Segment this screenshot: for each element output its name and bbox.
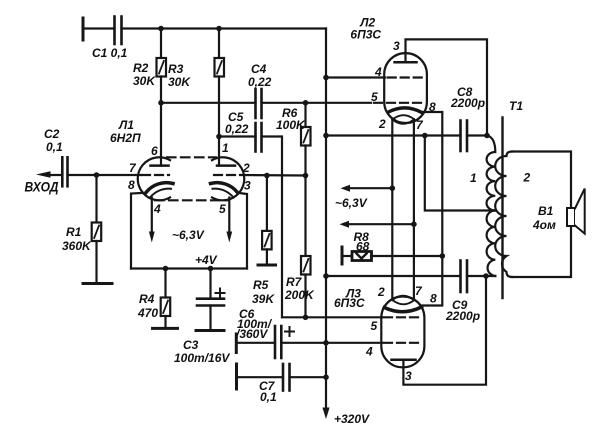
L3 heater lens: [393, 296, 415, 305]
wire center tap feed: [425, 136, 496, 211]
heater supply arrow 1: [347, 187, 392, 189]
L1 cathode right (pin 3): [211, 183, 238, 193]
L1 heater left (pin 4): [150, 189, 171, 198]
tube L3 envelope: [381, 297, 424, 368]
tube L1 envelope right arc: [212, 157, 244, 200]
svg-text:R2: R2: [133, 61, 149, 75]
svg-text:R5: R5: [253, 278, 269, 292]
wire B+ row to C9: [326, 275, 461, 277]
tube L1 envelope left arc: [138, 157, 170, 200]
junction rail to B+ feed row: [323, 133, 329, 139]
resistor R3: [218, 29, 220, 59]
svg-text:7: 7: [416, 118, 424, 132]
L1 heater right (pin 5): [213, 189, 234, 198]
junction B+ feed to center tap: [422, 133, 428, 139]
svg-text:0,1: 0,1: [260, 390, 277, 404]
svg-text:R3: R3: [168, 62, 184, 76]
capacitor C8: [459, 121, 462, 152]
junction R8 to cathode line: [440, 253, 446, 259]
svg-text:2200p: 2200p: [450, 96, 485, 110]
wire C2 to tube pin7: [68, 174, 142, 176]
svg-text:~6,3V: ~6,3V: [172, 228, 205, 242]
junction rail to L2 screen: [323, 75, 329, 81]
speaker B1: [567, 208, 575, 226]
+320V rail (vertical): [325, 29, 327, 411]
svg-text:5: 5: [219, 202, 226, 216]
svg-text:7: 7: [129, 161, 137, 175]
svg-text:~6,3V: ~6,3V: [335, 196, 368, 210]
C6 plus sign: [285, 331, 294, 333]
capacitor C3 (electrolytic): [209, 269, 211, 299]
svg-text:4: 4: [374, 65, 382, 79]
transformer T1 core: [501, 118, 503, 299]
T1 primary winding bottom half: [487, 211, 496, 277]
svg-text:R1: R1: [66, 225, 82, 239]
svg-text:R7: R7: [286, 275, 303, 289]
L3 grid1 dashes: [384, 316, 420, 318]
junction R2 top on +320V bus: [158, 26, 164, 32]
resistor R7: [304, 176, 306, 257]
L1 heater lead pin4 with arrow: [151, 198, 153, 234]
junction heater line pin7 arrow: [411, 221, 417, 227]
wire C5 output down to L3 grid row: [262, 137, 283, 318]
svg-text:68: 68: [356, 240, 370, 254]
L1 anode bar left (pin 6): [151, 164, 169, 167]
svg-text:2: 2: [523, 171, 531, 185]
svg-text:0,22: 0,22: [225, 122, 249, 136]
L1 grid dashes left (pin 7): [142, 174, 169, 176]
capacitor C2: [61, 157, 64, 186]
svg-text:2: 2: [377, 285, 385, 299]
ground bar under R4: [153, 327, 178, 330]
svg-text:470: 470: [137, 306, 158, 320]
capacitor C1: [113, 17, 116, 45]
L3 cathode arc: [384, 307, 421, 312]
capacitor C9: [459, 261, 462, 293]
ground bar under R1: [83, 282, 112, 285]
tube L1 envelope dashed top: [167, 156, 216, 158]
L2 anode bar pin3: [395, 61, 417, 64]
svg-text:0,22: 0,22: [248, 75, 272, 89]
resistor R2: [160, 29, 162, 59]
junction R6/R7 divider tap: [303, 173, 309, 179]
svg-text:2200p: 2200p: [445, 309, 480, 323]
wire R3 node to C5: [219, 135, 256, 137]
tube L1 envelope dashed bottom: [155, 199, 229, 201]
svg-text:6П3С: 6П3С: [350, 28, 381, 42]
svg-text:4: 4: [365, 345, 373, 359]
svg-text:200K: 200K: [284, 288, 315, 302]
L3 grid2 dashes: [384, 342, 420, 344]
svg-text:0,1: 0,1: [46, 140, 63, 154]
junction R3 top on +320V bus: [216, 26, 222, 32]
svg-text:30K: 30K: [133, 74, 156, 88]
T1 primary winding top half: [487, 136, 496, 211]
wire anode1 row to C4: [161, 102, 256, 104]
junction rail to L3 screen row: [323, 340, 329, 346]
svg-text:C2: C2: [44, 127, 60, 141]
junction rail to C7: [323, 374, 329, 380]
svg-text:R4: R4: [139, 292, 155, 306]
L2 heater lens: [393, 115, 415, 124]
L1 heater lead pin5 with arrow: [228, 198, 230, 234]
svg-text:8: 8: [429, 100, 436, 114]
svg-text:1: 1: [470, 171, 477, 185]
svg-text:6: 6: [151, 144, 158, 158]
svg-text:3: 3: [244, 179, 251, 193]
junction R7 bottom / L3 grid node: [303, 315, 309, 321]
T1 secondary winding: [495, 152, 512, 278]
svg-text:B1: B1: [538, 204, 554, 218]
svg-text:3: 3: [405, 369, 412, 383]
svg-text:/360V: /360V: [235, 327, 268, 341]
capacitor C5: [254, 123, 257, 152]
resistor R5: [266, 176, 268, 231]
ground terminal C7: [235, 364, 238, 389]
wire L2 cathode to common cathode line: [422, 112, 443, 256]
svg-text:C1 0,1: C1 0,1: [92, 46, 128, 60]
resistor R8: [352, 252, 372, 261]
wire secondary to speaker: [512, 152, 571, 209]
ground terminal bar at C1 left: [82, 18, 85, 40]
svg-text:100K: 100K: [276, 118, 306, 132]
junction heater line pin2 arrow: [390, 185, 396, 191]
svg-text:360K: 360K: [62, 239, 92, 253]
svg-text:8: 8: [128, 178, 135, 192]
wire B+ row to C8: [326, 134, 461, 136]
L2 grid2 dashes pin4: [388, 76, 424, 78]
ground bar under C3: [196, 329, 224, 332]
junction C9 / L3 anode / primary bottom: [483, 273, 489, 279]
svg-text:+320V: +320V: [334, 412, 370, 426]
L1 cathode left (pin 8): [146, 183, 173, 193]
svg-text:Л1: Л1: [118, 118, 134, 132]
junction C3 on cathode bus: [208, 266, 214, 272]
svg-text:30K: 30K: [168, 75, 191, 89]
svg-text:6П3С: 6П3С: [334, 296, 365, 310]
junction input node C2/R1: [94, 172, 100, 178]
resistor R6: [304, 103, 306, 127]
L1 grid dashes right (pin 2): [214, 174, 241, 176]
junction node anode1 / C4 wire: [158, 100, 164, 106]
svg-text:1: 1: [222, 141, 229, 155]
wire pin8 to cathode box: [131, 193, 146, 269]
svg-text:+4V: +4V: [195, 253, 218, 267]
junction R4 on cathode bus: [163, 266, 169, 272]
L1 anode bar right (pin 1): [217, 164, 235, 167]
svg-text:4: 4: [153, 202, 161, 216]
heater supply arrow 2: [346, 223, 414, 225]
capacitor C7: [282, 364, 285, 391]
svg-text:5: 5: [371, 90, 378, 104]
ground bar under R5: [258, 264, 276, 267]
wire pin3 to cathode box: [238, 193, 247, 269]
input arrow VHOD: [36, 171, 51, 177]
junction rail to C9 row: [323, 273, 329, 279]
resistor R1: [95, 175, 97, 223]
wire L3 anode to transformer bottom: [403, 276, 486, 385]
L2 grid1 dashes pin5: [374, 102, 422, 104]
resistor R4: [164, 269, 166, 298]
svg-text:2: 2: [378, 117, 386, 131]
junction C8 / L2 anode / primary top: [484, 133, 490, 139]
svg-text:4ом: 4ом: [532, 218, 556, 232]
svg-text:T1: T1: [509, 99, 523, 113]
wire cathode box bottom: [131, 267, 247, 269]
junction R5 top on grid2 wire: [264, 173, 270, 179]
svg-text:100m/16V: 100m/16V: [174, 351, 230, 365]
svg-text:2: 2: [242, 161, 250, 175]
wire rail to L2 pin4: [326, 76, 385, 78]
+320V arrow: [322, 408, 329, 420]
C3 plus sign: [216, 292, 225, 294]
ground terminal C6: [235, 334, 238, 353]
wire heater pin7 L2 down to L3: [413, 119, 415, 300]
wire L3 grid1 row: [282, 316, 382, 318]
L2 cathode arc: [389, 108, 422, 113]
svg-text:5: 5: [371, 319, 378, 333]
wire L1 pin2 to divider: [243, 174, 306, 177]
wire C6 to rail and L3 screen: [281, 342, 382, 344]
wire top bus from C1 to rail corner: [83, 27, 115, 29]
wire L2 anode to transformer top: [406, 39, 488, 135]
wire L3 cathode to common line: [422, 256, 443, 306]
junction C4-R6 / L2 grid node: [303, 100, 309, 106]
ground terminal R8: [341, 247, 344, 264]
svg-text:3: 3: [393, 39, 400, 53]
tube L2 envelope: [384, 53, 427, 123]
capacitor C4: [254, 89, 257, 118]
capacitor C6 (electrolytic): [274, 326, 277, 358]
wire C4 to L2 grid: [262, 102, 372, 104]
svg-text:7: 7: [415, 284, 423, 298]
svg-text:6Н2П: 6Н2П: [110, 131, 141, 145]
L3 anode bar pin3: [392, 358, 416, 361]
svg-text:C3: C3: [183, 338, 199, 352]
svg-text:ВХОД: ВХОД: [25, 179, 59, 195]
svg-text:39K: 39K: [252, 292, 275, 306]
svg-text:C4: C4: [251, 62, 267, 76]
junction node anode2 / C5 wire: [216, 134, 222, 140]
junction dots group: [94, 26, 490, 380]
svg-text:8: 8: [430, 292, 437, 306]
wire heater pin2 L2 down to L3: [391, 120, 393, 301]
